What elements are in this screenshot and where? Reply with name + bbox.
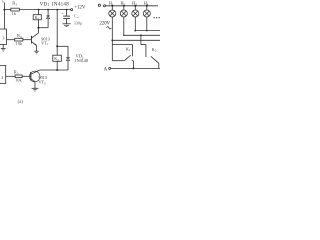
svg-text:K1: K1 xyxy=(126,46,131,52)
svg-text:10k: 10k xyxy=(15,77,22,82)
svg-text:K1: K1 xyxy=(35,15,40,21)
svg-text:+12V: +12V xyxy=(74,6,86,11)
svg-text:10k: 10k xyxy=(16,41,23,46)
svg-text:(a): (a) xyxy=(18,100,24,105)
svg-text:A: A xyxy=(104,67,108,72)
svg-text:VT2: VT2 xyxy=(39,80,47,86)
svg-text:H1: H1 xyxy=(109,1,114,7)
svg-text:VT1: VT1 xyxy=(41,40,49,46)
svg-text:R3: R3 xyxy=(12,1,17,7)
svg-text:H4: H4 xyxy=(144,1,149,7)
svg-text:H2: H2 xyxy=(121,1,126,7)
svg-text:R4: R4 xyxy=(17,33,22,39)
svg-text:K2: K2 xyxy=(152,47,157,53)
svg-text:R5: R5 xyxy=(14,70,19,76)
svg-text:C4: C4 xyxy=(74,14,79,20)
svg-text:220V: 220V xyxy=(99,21,110,26)
svg-text:330μ: 330μ xyxy=(74,21,84,26)
svg-text:1N4148: 1N4148 xyxy=(75,58,89,63)
svg-text:H3: H3 xyxy=(132,1,137,7)
svg-text:K2: K2 xyxy=(54,56,59,62)
svg-text:VD1 1N4148: VD1 1N4148 xyxy=(40,2,70,7)
